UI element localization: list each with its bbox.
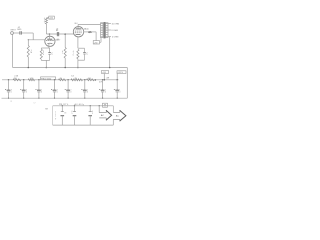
node rail tap C7 — [38, 79, 40, 81]
capacitor C5 — [8, 80, 10, 90]
wire right edge down — [126, 68, 128, 99]
wire +120V lead — [116, 74, 118, 80]
input jack J1 — [11, 32, 14, 35]
svg-text:0: 0 — [57, 92, 58, 94]
svg-text:0: 0 — [41, 92, 42, 94]
node ground C8 — [54, 98, 55, 99]
svg-text:0: 0 — [11, 92, 12, 94]
tube V1 envelope — [45, 36, 55, 46]
wire OPT primary bottom — [100, 38, 102, 43]
svg-text:A.C. 60 Cy.: A.C. 60 Cy. — [75, 103, 85, 106]
wire AC bottom line — [53, 124, 114, 126]
capacitor C10 — [84, 80, 86, 90]
capacitor C3 25uF — [49, 48, 51, 53]
svg-text:0: 0 — [119, 92, 120, 94]
tube V2 grid 2 — [75, 32, 82, 34]
wire plate to OPT — [78, 23, 100, 25]
resistor R4 1500 — [40, 48, 42, 49]
svg-text:AC: AC — [101, 114, 104, 117]
svg-text:.02: .02 — [56, 29, 58, 31]
capacitor C1 .02 — [19, 31, 21, 34]
node rail dot 95 — [95, 79, 97, 81]
svg-text:+120 V: +120 V — [118, 72, 124, 74]
svg-text:5: 5 — [72, 113, 73, 115]
label field coil box — [41, 77, 56, 80]
node ground C10 — [84, 98, 85, 99]
node rail tap C12 — [116, 79, 118, 81]
svg-text:0: 0 — [70, 92, 71, 94]
node ground C11 — [102, 98, 103, 99]
plug blade arrow 2 — [113, 111, 120, 113]
capacitor C9 — [67, 80, 69, 90]
label +250V box — [49, 16, 55, 19]
svg-text:AC: AC — [116, 115, 119, 118]
wire C1 to corner — [22, 32, 34, 34]
wire screen drop — [95, 32, 97, 41]
svg-text:+250: +250 — [49, 18, 53, 20]
tube V2 envelope — [73, 27, 83, 37]
wire bottom to plug 2 — [112, 119, 114, 125]
fuse F1 — [103, 103, 108, 107]
node ground OPT — [109, 67, 111, 69]
label +135V box — [102, 71, 109, 74]
transformer T1 core — [103, 22, 105, 38]
wire cathode split top — [41, 47, 49, 49]
resistor R5 470 — [77, 49, 79, 58]
svg-text:FIELD 455Ω: FIELD 455Ω — [41, 77, 52, 80]
node ground C7 — [38, 98, 39, 99]
node V2 cathode ground — [77, 67, 79, 69]
resistor R10 — [87, 79, 95, 81]
wire corner down — [32, 33, 34, 40]
label +120V box — [117, 71, 126, 74]
svg-text:6AQ5: 6AQ5 — [84, 27, 89, 30]
label screen squiggle — [88, 32, 91, 33]
node ground R3 — [64, 67, 66, 69]
wire V2 plate up — [77, 24, 79, 29]
wire screen line — [84, 31, 97, 33]
svg-text:+135: +135 — [102, 72, 106, 74]
node rail tap C5 — [8, 79, 10, 81]
svg-text:MF: MF — [56, 30, 58, 32]
node rail dot 104 — [104, 79, 106, 81]
plug blade arrow 1 — [99, 112, 106, 114]
node rail tap C8 — [54, 79, 56, 81]
svg-text:0: 0 — [26, 92, 27, 94]
svg-text:8 OHM: 8 OHM — [112, 30, 119, 32]
capacitor C13 — [74, 105, 75, 106]
tube V1 plate — [47, 38, 52, 40]
capacitor C2 .02 — [56, 32, 58, 36]
wire B+ rail — [2, 79, 119, 81]
svg-text:5: 5 — [87, 54, 88, 56]
wire tap to ground bus — [109, 37, 111, 68]
node ground C5 — [8, 98, 9, 99]
capacitor C7 — [38, 80, 40, 90]
wire cathode stem — [45, 60, 47, 67]
resistor R9 — [71, 79, 83, 81]
resistor R8 — [59, 79, 66, 81]
svg-text:PRI. 117 V.: PRI. 117 V. — [59, 104, 69, 106]
svg-text:+250: +250 — [94, 42, 98, 44]
svg-text:6.3: 6.3 — [71, 75, 73, 77]
node plate junction — [49, 33, 51, 35]
svg-text:2W: 2W — [106, 78, 109, 80]
wire V1 plate up — [49, 34, 51, 39]
tube V2 grid 1 — [75, 30, 82, 32]
wire V2 cathode lead — [77, 37, 79, 48]
wire cathode split bottom — [41, 59, 49, 61]
label +250V box 2 — [93, 41, 99, 44]
resistor R2 470K — [45, 18, 47, 24]
capacitor C14 — [90, 105, 91, 106]
svg-text:0: 0 — [43, 54, 44, 56]
svg-text:C2: C2 — [57, 39, 59, 41]
svg-text:MFD: MFD — [17, 29, 22, 31]
svg-text:7: 7 — [62, 53, 63, 55]
svg-text:ON: ON — [64, 113, 66, 115]
resistor R6 — [13, 79, 21, 81]
resistor R3 470K grid leak — [64, 34, 66, 47]
node ground R1 — [28, 67, 30, 69]
capacitor C6 — [23, 80, 25, 90]
wire V2 split bottom — [78, 59, 85, 61]
svg-text:0: 0 — [105, 92, 106, 94]
tube V2 plate — [76, 28, 82, 30]
wire tap 2 — [108, 29, 111, 31]
wire jack to C1 — [13, 32, 19, 34]
wire ground bus — [13, 67, 128, 69]
transformer T1 secondary — [106, 23, 109, 38]
node ground C12 — [117, 98, 118, 99]
svg-text:0: 0 — [44, 22, 45, 24]
svg-text:5: 5 — [92, 113, 93, 115]
svg-text:INPUT: INPUT — [11, 30, 16, 32]
node rail tap C9 — [67, 79, 69, 81]
svg-text:16 OHM: 16 OHM — [112, 24, 120, 26]
wire grid line — [28, 39, 45, 41]
tube V1 grid — [46, 40, 53, 42]
wire jack ground drop — [12, 34, 14, 67]
capacitor C11 — [102, 80, 104, 90]
capacitor C8 — [54, 80, 56, 90]
svg-text:C5: C5 — [10, 101, 12, 103]
wire R2 stub — [46, 17, 48, 19]
svg-text:4 OHM: 4 OHM — [112, 37, 119, 39]
capacitor C12 — [116, 80, 118, 90]
resistor R7 — [28, 79, 34, 81]
node rail tap C6 — [23, 79, 25, 81]
svg-text:0: 0 — [87, 92, 88, 94]
wire V2 cathode stem — [77, 60, 79, 67]
wire AC left edge — [52, 106, 54, 125]
resistor R1 1MEG — [27, 40, 29, 46]
wire tap 1 — [108, 23, 111, 25]
wire plug link — [112, 106, 114, 113]
wire tap 3 — [108, 36, 111, 38]
node cathode ground — [46, 67, 48, 69]
node ground C9 — [67, 98, 68, 99]
wire ground line — [2, 97, 128, 99]
wire +135V lead — [103, 74, 105, 80]
transformer T1 primary — [101, 23, 104, 38]
node grid junction — [28, 39, 29, 40]
wire coupling line — [46, 33, 73, 35]
node grid2 junction — [64, 33, 66, 35]
node ground C6 — [23, 98, 24, 99]
svg-text:BLU: BLU — [75, 23, 78, 25]
node rail tap C10 — [84, 79, 86, 81]
capacitor C4 25uF — [84, 48, 86, 52]
svg-text:0: 0 — [73, 55, 74, 57]
wire AC top line — [53, 105, 114, 107]
switch S1 — [62, 105, 63, 106]
tube V2 cathode — [75, 33, 80, 36]
wire plate riser — [45, 24, 47, 34]
node rail tap C11 — [102, 79, 104, 81]
wire plug drop 1 — [98, 106, 100, 113]
node fuse junction — [99, 105, 100, 106]
svg-text:5: 5 — [52, 54, 53, 56]
tube V1 cathode — [47, 42, 52, 45]
wire V2 split top — [78, 47, 85, 49]
svg-text:1W: 1W — [14, 78, 17, 80]
wire V1 cathode lead — [48, 44, 50, 48]
svg-text:C7: C7 — [34, 103, 36, 105]
